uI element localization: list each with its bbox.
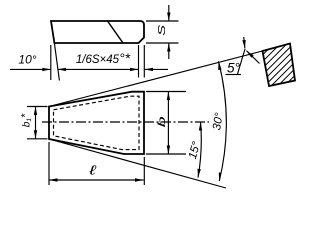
svg-text:ℓ: ℓ — [88, 163, 96, 178]
svg-text:1/6S×45°*: 1/6S×45°* — [76, 50, 131, 66]
svg-text:b: b — [157, 116, 168, 127]
svg-text:30°: 30° — [211, 112, 226, 132]
svg-text:5°: 5° — [227, 61, 241, 76]
svg-text:10°: 10° — [18, 53, 36, 67]
svg-text:b1*: b1* — [20, 113, 33, 127]
svg-text:S: S — [156, 25, 167, 36]
